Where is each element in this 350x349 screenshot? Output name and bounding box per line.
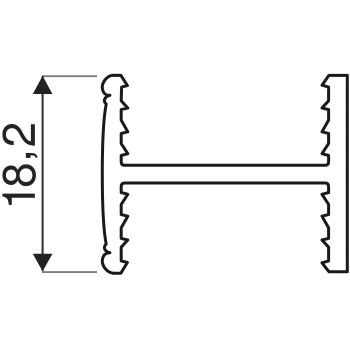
dimension line bbox=[42, 76, 44, 271]
arrow up bbox=[33, 76, 53, 94]
extension line bottom bbox=[42, 271, 97, 273]
dimension label 18,2 bbox=[2, 124, 37, 205]
arrow down bbox=[33, 254, 53, 272]
H-profile outline bbox=[102, 75, 347, 273]
extension line top bbox=[42, 75, 97, 77]
